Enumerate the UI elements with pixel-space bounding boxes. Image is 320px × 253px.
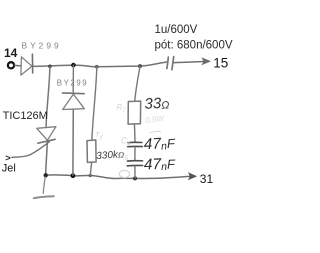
- node D (33R tap): [138, 64, 142, 68]
- svg-text:Ty: Ty: [95, 130, 104, 141]
- wire C2 to C3: [134, 147, 136, 161]
- svg-text:1u/600V: 1u/600V: [155, 24, 198, 36]
- wire cap to arrow 15: [174, 62, 204, 63]
- node A (thyristor anode tap): [48, 65, 52, 69]
- svg-text:Jel: Jel: [2, 163, 16, 175]
- wire thyristor anode: [46, 67, 50, 128]
- svg-text:47nF: 47nF: [143, 135, 176, 154]
- wire bottom rail: [46, 175, 193, 179]
- diode D1 BY299 (horizontal): [21, 54, 33, 75]
- svg-text:0,5W: 0,5W: [145, 114, 166, 125]
- wire vertical diode top: [72, 65, 74, 92]
- svg-text:BY299: BY299: [22, 40, 62, 50]
- wire stub below cathode junction: [43, 177, 45, 193]
- svg-text:33Ω: 33Ω: [144, 95, 170, 113]
- thyristor gate wire: [12, 142, 50, 158]
- svg-text:pót: 680n/600V: pót: 680n/600V: [155, 39, 233, 51]
- faint mark above 47nF: [150, 131, 161, 133]
- svg-text:14: 14: [4, 46, 18, 60]
- svg-text:15: 15: [213, 55, 228, 70]
- diode D2 BY299 (vertical): [63, 93, 85, 110]
- thyristor Q1 TIC126M: [37, 127, 56, 144]
- wire terminal-to-diode: [15, 64, 22, 67]
- arrowhead to 15: [202, 58, 211, 65]
- svg-text:BY299: BY299: [57, 79, 88, 88]
- wire top rail: [33, 62, 166, 67]
- node B (vertical diode tap): [71, 63, 76, 68]
- capacitor C1 1u/600V plates: [167, 57, 174, 70]
- faint ellipse mark: [119, 170, 129, 177]
- svg-text:47nF: 47nF: [144, 155, 177, 173]
- terminal 14: [8, 62, 14, 68]
- arrowhead to 31: [188, 173, 196, 180]
- wire 33R to C2: [133, 124, 136, 142]
- capacitor C3 47nF plates: [127, 161, 142, 166]
- node F (vertical diode bottom): [71, 173, 76, 178]
- ground tick: [34, 196, 54, 198]
- svg-text:31: 31: [200, 172, 214, 186]
- node E (cathode junction): [44, 173, 48, 177]
- wire thyristor cathode: [46, 142, 48, 175]
- svg-text:TIC126M: TIC126M: [3, 110, 48, 122]
- wire 33R top: [135, 66, 140, 101]
- wire 330k bottom: [90, 163, 91, 176]
- node C (330k tap): [95, 65, 99, 69]
- wire C3 to bottom rail: [134, 166, 136, 178]
- node G (330k bottom): [89, 174, 92, 177]
- svg-text:R7: R7: [117, 103, 127, 114]
- node H (caps bottom): [133, 176, 137, 180]
- svg-text:C5: C5: [119, 151, 129, 162]
- wire 330k top: [92, 67, 97, 140]
- capacitor C2 47nF plates: [128, 142, 143, 146]
- resistor R2 330k body: [87, 140, 96, 162]
- resistor R1 33R body: [128, 101, 141, 124]
- svg-text:C4: C4: [121, 137, 131, 148]
- wire vertical diode bottom: [72, 109, 74, 175]
